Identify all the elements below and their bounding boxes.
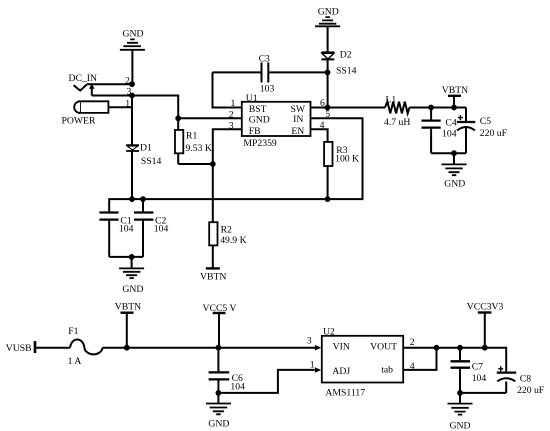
svg-text:C7: C7 bbox=[472, 362, 483, 373]
svg-text:F1: F1 bbox=[68, 326, 78, 337]
svg-text:1: 1 bbox=[125, 98, 130, 109]
svg-text:C4: C4 bbox=[445, 118, 456, 129]
svg-text:VBTN: VBTN bbox=[200, 272, 226, 283]
svg-text:ADJ: ADJ bbox=[332, 366, 350, 377]
svg-text:3: 3 bbox=[229, 120, 234, 131]
svg-text:220 uF: 220 uF bbox=[480, 128, 508, 139]
svg-text:DC_IN: DC_IN bbox=[69, 73, 98, 84]
svg-text:VIN: VIN bbox=[333, 342, 350, 353]
svg-text:GND: GND bbox=[123, 29, 144, 40]
svg-text:C8: C8 bbox=[520, 374, 531, 385]
svg-text:D2: D2 bbox=[340, 50, 352, 61]
svg-text:VBTN: VBTN bbox=[115, 302, 141, 313]
svg-text:SS14: SS14 bbox=[336, 66, 357, 77]
svg-text:9.53 K: 9.53 K bbox=[186, 143, 212, 154]
svg-text:POWER: POWER bbox=[62, 116, 96, 127]
svg-text:3: 3 bbox=[307, 336, 312, 347]
svg-text:C5: C5 bbox=[480, 116, 491, 127]
svg-text:GND: GND bbox=[208, 419, 229, 430]
svg-text:GND: GND bbox=[122, 284, 143, 295]
svg-text:100 K: 100 K bbox=[335, 154, 359, 165]
svg-text:2: 2 bbox=[229, 109, 234, 120]
svg-text:GND: GND bbox=[318, 7, 339, 18]
svg-text:4.7 uH: 4.7 uH bbox=[384, 117, 410, 128]
svg-text:C3: C3 bbox=[259, 54, 270, 65]
svg-text:BST: BST bbox=[249, 104, 267, 115]
svg-text:104: 104 bbox=[154, 224, 169, 235]
svg-text:1 A: 1 A bbox=[68, 356, 82, 367]
svg-text:1: 1 bbox=[310, 359, 315, 370]
svg-text:VUSB: VUSB bbox=[6, 343, 32, 354]
svg-text:EN: EN bbox=[291, 126, 304, 137]
svg-text:49.9 K: 49.9 K bbox=[220, 235, 246, 246]
svg-text:SS14: SS14 bbox=[141, 156, 162, 167]
svg-text:GND: GND bbox=[249, 115, 270, 126]
svg-text:MP2359: MP2359 bbox=[243, 138, 277, 149]
svg-text:103: 103 bbox=[260, 84, 275, 95]
svg-text:L1: L1 bbox=[386, 94, 397, 105]
svg-text:VCC5 V: VCC5 V bbox=[203, 303, 237, 314]
svg-text:VBTN: VBTN bbox=[442, 85, 468, 96]
svg-text:104: 104 bbox=[230, 382, 245, 393]
svg-text:tab: tab bbox=[381, 365, 393, 376]
svg-text:2: 2 bbox=[410, 337, 415, 348]
svg-text:104: 104 bbox=[442, 128, 457, 139]
svg-text:1: 1 bbox=[231, 98, 236, 109]
svg-text:GND: GND bbox=[450, 420, 471, 431]
svg-text:IN: IN bbox=[293, 114, 303, 125]
svg-text:U2: U2 bbox=[323, 327, 335, 338]
svg-text:R2: R2 bbox=[221, 224, 232, 235]
svg-text:R1: R1 bbox=[186, 131, 197, 142]
svg-text:VOUT: VOUT bbox=[370, 342, 397, 353]
svg-text:104: 104 bbox=[119, 224, 134, 235]
svg-text:6: 6 bbox=[320, 98, 325, 109]
svg-text:D1: D1 bbox=[140, 142, 152, 153]
svg-text:AMS1117: AMS1117 bbox=[325, 388, 365, 399]
svg-text:104: 104 bbox=[472, 373, 487, 384]
svg-text:FB: FB bbox=[249, 126, 261, 137]
svg-text:U1: U1 bbox=[246, 93, 258, 104]
svg-text:VCC3V3: VCC3V3 bbox=[467, 302, 504, 313]
svg-text:220 uF: 220 uF bbox=[517, 385, 545, 396]
svg-text:GND: GND bbox=[444, 179, 465, 190]
